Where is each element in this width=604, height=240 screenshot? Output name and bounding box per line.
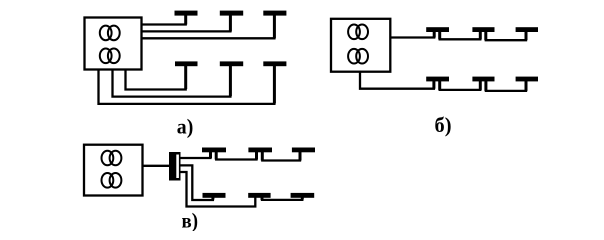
wire trunk b1 segment 2	[440, 31, 481, 39]
stem EP5	[229, 64, 232, 96]
stem EP12	[525, 79, 528, 91]
stem EP10 out	[438, 79, 441, 90]
stem EP3	[273, 13, 276, 38]
stem EP8 out	[484, 30, 487, 40]
transformer substation box TP1	[85, 18, 142, 70]
load EP3	[263, 11, 286, 16]
load EP2	[220, 11, 243, 16]
load EP7	[426, 27, 449, 32]
stem EP10 in	[432, 79, 435, 89]
svg-text:а): а)	[177, 114, 194, 138]
stem EP13 out	[215, 150, 218, 160]
transformer winding symbol T1 top	[100, 26, 120, 41]
load EP14	[248, 148, 272, 153]
transformer winding symbol T3 top	[102, 151, 122, 166]
wire trunk b1	[390, 31, 434, 37]
wire feeder v2 to EP16	[181, 165, 213, 200]
wire trunk v1 segment 3	[262, 152, 300, 161]
transformer winding symbol T3 bottom	[102, 173, 122, 188]
stem EP16	[211, 196, 214, 200]
stem EP7 in	[433, 30, 436, 38]
transformer winding symbol T2 top	[348, 25, 368, 40]
load EP17	[248, 193, 270, 198]
wire trunk b2 segment 3	[486, 81, 526, 91]
stem EP11 in	[479, 79, 482, 90]
wire feeder a2	[142, 15, 231, 31]
stem EP1	[184, 13, 187, 25]
load EP6	[263, 61, 286, 66]
stem EP2	[229, 13, 232, 31]
wire feeder a4	[126, 66, 186, 90]
load EP11	[472, 77, 494, 82]
stem EP11 out	[484, 79, 487, 91]
load EP4	[175, 61, 198, 66]
wire trunk v1	[181, 152, 211, 158]
transformer substation box TP2	[331, 19, 390, 72]
transformer winding symbol T2 bottom	[348, 49, 368, 64]
stem EP14 out	[261, 150, 264, 161]
stem EP13 in	[209, 150, 212, 158]
wire feeder a5	[113, 66, 231, 97]
wire trunk b1 segment 3	[486, 31, 526, 40]
load EP15	[292, 148, 315, 153]
stem EP18	[301, 196, 304, 200]
load EP9	[516, 27, 538, 32]
stem EP9	[525, 30, 528, 40]
stem EP14 in	[255, 150, 258, 160]
load EP10	[426, 77, 449, 82]
load EP13	[202, 148, 226, 153]
load stems (thicker drops)	[186, 13, 526, 200]
busbar switchboard Shch	[169, 152, 181, 181]
load EP18	[291, 193, 315, 198]
svg-text:б): б)	[435, 113, 452, 137]
transformer substation box TP3	[84, 145, 143, 196]
stem EP6	[273, 64, 276, 103]
wire trunk v1 segment 2	[216, 152, 256, 160]
load EP8	[472, 27, 494, 32]
stem EP7 out	[438, 30, 441, 39]
load EP1	[175, 11, 198, 16]
wire trunk b2	[360, 71, 434, 89]
load EP5	[220, 61, 243, 66]
svg-text:в): в)	[182, 209, 199, 232]
load EP16	[203, 193, 226, 198]
wire feeder v3 to EP17	[181, 172, 256, 207]
stem EP15	[299, 150, 302, 161]
wire feeder a1	[142, 15, 186, 24]
wire box to busbar	[143, 165, 170, 167]
transformer winding symbol T1 bottom	[100, 49, 120, 64]
wire trunk b2 segment 2	[440, 81, 481, 90]
stem EP8 in	[479, 30, 482, 39]
stem EP4	[184, 64, 187, 89]
wire feeder a3	[142, 15, 275, 38]
wire trunk v4 segment	[262, 198, 302, 200]
wire feeder a6	[99, 66, 275, 104]
load EP12	[516, 77, 538, 82]
stem EP17 out	[261, 196, 264, 200]
